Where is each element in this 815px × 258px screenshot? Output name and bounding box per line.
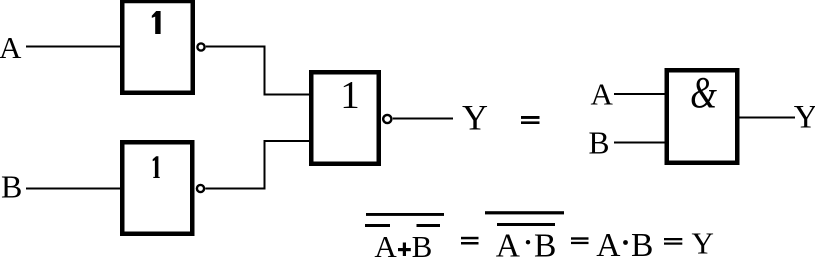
svg-text:Y: Y bbox=[794, 99, 815, 135]
svg-text:Y: Y bbox=[462, 97, 488, 137]
svg-text:A: A bbox=[496, 228, 520, 258]
svg-text:A: A bbox=[591, 76, 614, 111]
svg-text:Y: Y bbox=[692, 225, 714, 258]
svg-text:B: B bbox=[589, 125, 610, 160]
svg-text:A: A bbox=[596, 227, 620, 258]
svg-text:B: B bbox=[534, 228, 556, 258]
svg-text:B: B bbox=[412, 229, 433, 258]
svg-text:A: A bbox=[374, 229, 397, 258]
svg-text:B: B bbox=[631, 227, 653, 258]
svg-text:A: A bbox=[0, 30, 22, 65]
svg-text:1: 1 bbox=[340, 73, 360, 116]
svg-text:B: B bbox=[1, 168, 22, 204]
svg-text:&: & bbox=[690, 68, 717, 117]
